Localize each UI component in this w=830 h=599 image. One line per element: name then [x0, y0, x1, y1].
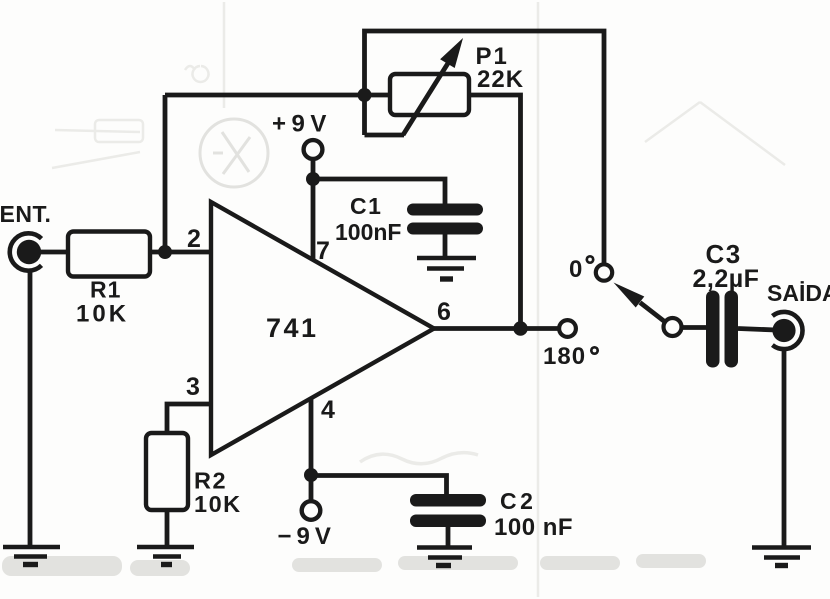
svg-text:R2: R2 — [194, 468, 227, 494]
svg-text:7: 7 — [316, 237, 330, 265]
svg-text:+9V: +9V — [272, 111, 332, 138]
wire ENT to R1 — [40, 250, 68, 255]
ground (R2) — [137, 547, 194, 565]
ground (SAIDA) — [752, 548, 811, 566]
junction node pin2/feedback — [158, 245, 172, 259]
wire V- to C2 — [311, 476, 447, 495]
svg-text:ENT.: ENT. — [0, 201, 51, 227]
wire pole to C3 — [681, 325, 707, 330]
potentiometer P1 — [390, 38, 469, 135]
op-amp U1 741 — [211, 202, 434, 455]
wire feedback horizontal to P1 — [165, 93, 392, 98]
svg-text:10K: 10K — [194, 491, 242, 517]
junction node P1 left — [358, 88, 372, 102]
wire P1 right to output — [468, 95, 521, 329]
wire C2 to ground — [446, 527, 451, 546]
svg-text:2: 2 — [187, 225, 201, 253]
ground (ENT) — [3, 547, 60, 565]
wire +9V to pin7 — [311, 158, 316, 260]
svg-text:−9V: −9V — [278, 523, 336, 550]
svg-text:3: 3 — [186, 373, 200, 401]
wire C3 to SAIDA — [738, 329, 776, 331]
svg-text:100 nF: 100 nF — [494, 514, 573, 541]
wire R1 to pin2 — [150, 250, 211, 255]
resistor R2 — [146, 433, 188, 510]
wire wiper jog — [365, 133, 405, 138]
svg-text:4: 4 — [321, 396, 335, 424]
capacitor C1 — [407, 204, 483, 235]
wire C1 to ground — [443, 234, 448, 257]
svg-text:SAİDA: SAİDA — [767, 280, 830, 306]
wire output pin6 — [434, 326, 559, 331]
contact 180 degrees — [559, 320, 576, 337]
svg-text:180: 180 — [543, 343, 586, 370]
wire P1 wiper loop — [365, 31, 605, 265]
ground (C1) — [417, 258, 476, 279]
svg-text:C2: C2 — [500, 488, 536, 514]
wire feedback vertical — [163, 95, 168, 252]
contact 0 degrees — [596, 264, 612, 280]
svg-text:C1: C1 — [350, 193, 382, 219]
svg-text:100nF: 100nF — [335, 219, 401, 245]
capacitor C2 — [410, 494, 486, 527]
connector J1 ENT. — [10, 233, 42, 270]
svg-text:R1: R1 — [90, 277, 121, 303]
svg-text:2,2µF: 2,2µF — [693, 265, 760, 293]
wire R2 to ground — [165, 509, 170, 546]
connector J2 SAIDA — [772, 312, 802, 349]
junction node output — [513, 321, 527, 335]
ghost bleed-through text bottom — [2, 554, 706, 576]
svg-text:22K: 22K — [477, 66, 524, 93]
wire V+ to C1 — [313, 179, 445, 204]
ground (C2) — [417, 548, 472, 566]
wire ENT to ground — [28, 271, 33, 546]
svg-text:0: 0 — [569, 256, 582, 283]
junction node V- — [304, 468, 318, 482]
wire pin3 — [167, 404, 212, 433]
svg-text:6: 6 — [437, 298, 451, 326]
terminal -9V — [302, 501, 321, 520]
junction node V+ — [306, 172, 320, 186]
svg-text:741: 741 — [266, 313, 319, 343]
wire pin4 down — [309, 398, 314, 501]
svg-text:10K: 10K — [76, 301, 129, 328]
ghost bleed-through transistor circle — [200, 119, 268, 187]
switch S1 arrow — [614, 283, 665, 322]
capacitor C3 — [706, 291, 738, 368]
terminal +9V — [304, 140, 323, 159]
resistor R1 — [68, 232, 150, 277]
wire SAIDA to ground — [782, 349, 787, 548]
switch S1 pole — [664, 318, 682, 336]
